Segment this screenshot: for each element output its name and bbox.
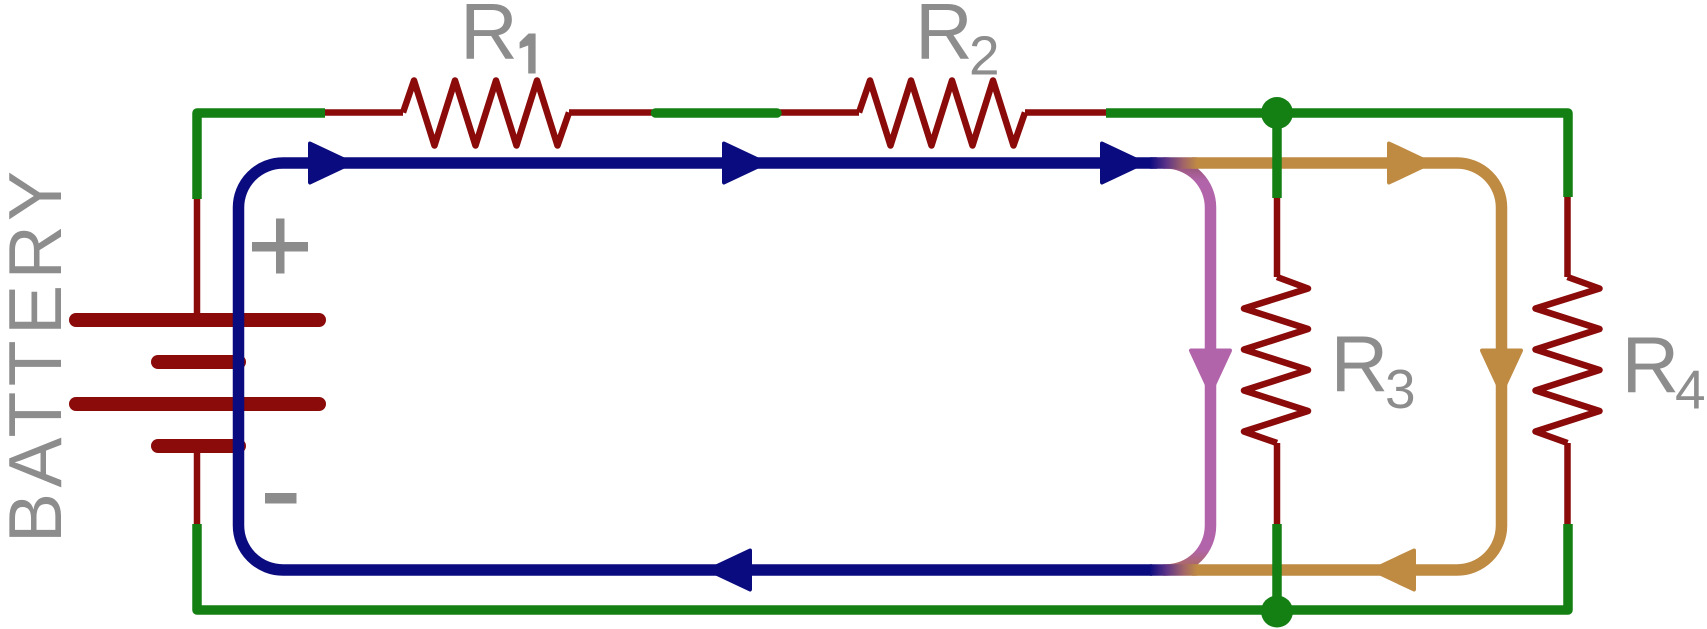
resistor R3 bottom lead xyxy=(1274,443,1281,526)
wire net R3 bottom lead xyxy=(1272,524,1282,610)
junction node B dot xyxy=(1261,596,1293,628)
resistor R1 right lead xyxy=(569,109,653,116)
wire net node A lead down xyxy=(1272,113,1282,198)
svg-text:BATTERY: BATTERY xyxy=(0,166,77,543)
current arrow tan bottom leftward xyxy=(1380,551,1414,590)
battery B1 plate short bottom xyxy=(158,439,239,453)
wire net bottom and sides xyxy=(197,524,1568,610)
resistor R3 top lead xyxy=(1274,196,1281,277)
svg-text:R: R xyxy=(1622,321,1680,410)
current arrow blue 2 top xyxy=(724,144,758,183)
wire net top right and right side upper xyxy=(1106,113,1568,197)
current arrow tan downward xyxy=(1482,351,1521,386)
svg-text:R: R xyxy=(915,0,973,76)
battery B1 plate long top xyxy=(76,313,319,327)
svg-text:3: 3 xyxy=(1385,358,1416,420)
current path I3 pink through R3 xyxy=(1163,163,1211,570)
svg-text:2: 2 xyxy=(969,25,1000,87)
resistor R2 body xyxy=(859,81,1025,146)
resistor R4 top lead xyxy=(1564,196,1571,277)
label battery plus xyxy=(252,242,308,252)
resistor R1 body xyxy=(403,81,569,146)
current arrow tan top rightward xyxy=(1389,144,1423,183)
resistor R3 body xyxy=(1244,277,1308,443)
wire net top left corner xyxy=(197,113,325,199)
current path I total blue loop xyxy=(239,163,1158,570)
resistor R2 right lead xyxy=(1025,109,1108,116)
battery B1 positive lead xyxy=(194,198,201,314)
current gradient blue to tan top xyxy=(1150,157,1197,169)
resistor R2 left lead xyxy=(779,109,859,116)
resistor R4 body xyxy=(1536,277,1600,443)
current path I4 tan through R4 xyxy=(1192,163,1502,570)
battery B1 plate short upper xyxy=(158,355,239,369)
svg-text:4: 4 xyxy=(1675,359,1706,421)
battery B1 negative lead xyxy=(194,452,201,525)
resistor R1 left lead xyxy=(323,109,403,116)
svg-text:R: R xyxy=(460,0,518,76)
wire net top middle xyxy=(656,108,778,118)
battery B1 plate long lower xyxy=(76,397,319,411)
svg-text:R: R xyxy=(1331,320,1389,409)
resistor R4 bottom lead xyxy=(1564,443,1571,526)
junction node A dot xyxy=(1261,97,1293,129)
current arrow blue bottom leftward xyxy=(716,551,750,590)
current arrow pink downward xyxy=(1191,351,1230,386)
current arrow blue 1 top xyxy=(310,144,344,183)
current gradient blue to tan bottom xyxy=(1150,564,1197,576)
current arrow blue 3 top xyxy=(1102,144,1136,183)
label battery minus xyxy=(265,493,297,504)
